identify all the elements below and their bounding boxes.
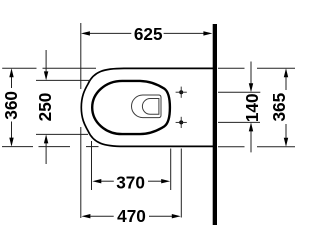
- sump inner: [142, 99, 158, 115]
- sump outer: [132, 95, 162, 118]
- extension line hole bottom (y=122.4): [218, 121, 260, 123]
- extension line hole axis (x=181.3): [180, 149, 182, 218]
- extension line top-right (y=68.2): [218, 67, 295, 69]
- dimension 360: [11, 77, 13, 139]
- dimension 365: [285, 77, 287, 139]
- fixing hole top: [176, 87, 187, 98]
- extension line bottom-left (y=146.6): [2, 146, 99, 148]
- fixing hole bottom: [176, 117, 187, 128]
- dimension 470: [90, 215, 172, 217]
- dimension 625: [90, 32, 205, 34]
- svg-text:360: 360: [1, 91, 21, 120]
- svg-text:625: 625: [134, 24, 163, 44]
- bowl rim: [92, 81, 170, 134]
- dimension 370: [101, 180, 162, 182]
- toilet outer contour: [81, 68, 217, 146]
- svg-text:470: 470: [117, 206, 146, 226]
- extension line bottom-right (y=146.7): [218, 146, 295, 148]
- svg-text:365: 365: [269, 92, 289, 121]
- dimension 140: [250, 62, 252, 153]
- extension line bowl front (x=91.5): [91, 141, 93, 190]
- dimension 250: [45, 50, 47, 164]
- extension line hole top (y=92.2): [218, 91, 260, 93]
- extension line bowl top-left (y=80.4): [36, 79, 91, 81]
- extension line front (x=80.8): [80, 23, 82, 218]
- svg-text:370: 370: [116, 172, 145, 192]
- svg-text:140: 140: [242, 93, 262, 122]
- wall: [213, 24, 217, 225]
- extension line bowl bottom-left (y=134.4): [36, 133, 88, 135]
- svg-text:250: 250: [35, 93, 55, 122]
- extension line top-left (y=68.2): [2, 67, 96, 69]
- extension line bowl rear (x=170.7): [170, 149, 172, 191]
